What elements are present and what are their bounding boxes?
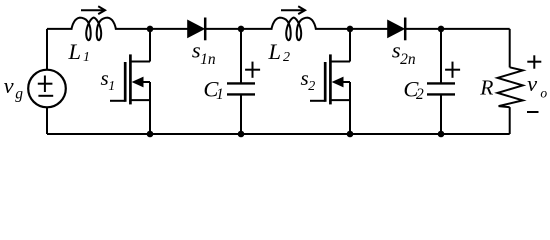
capacitor C1 bottom plate (227, 93, 255, 95)
wire: right branch lower (509, 107, 511, 134)
wire: s2 drain riser (349, 29, 351, 62)
wire: s2 source riser (349, 82, 351, 134)
wire: top rail segment 1 (47, 28, 73, 30)
transistor s2 body arrow (332, 77, 344, 88)
wire: left branch lower (46, 108, 48, 135)
junction node (238, 131, 245, 138)
capacitor C1 top plate (227, 82, 255, 84)
capacitor C2 bottom plate (427, 93, 455, 95)
svg-text:1: 1 (108, 79, 115, 94)
svg-text:2n: 2n (400, 51, 416, 68)
junction node (347, 26, 354, 33)
wire: top rail segment 3 (205, 28, 272, 30)
diode s1n cathode bar (204, 18, 207, 41)
wire: bottom rail (47, 133, 510, 135)
resistor R zigzag (498, 67, 523, 107)
svg-text:L: L (268, 39, 282, 64)
svg-text:2: 2 (416, 86, 424, 103)
C1 polarity plus (245, 69, 260, 71)
wire: s1 drain stub (129, 61, 150, 63)
capacitor C2 top lead (440, 29, 442, 84)
wire: top rail segment 2 (115, 28, 188, 30)
diode s1n triangle (187, 20, 205, 39)
diode s2n cathode bar (404, 18, 407, 41)
wire: s1 source riser (149, 82, 151, 134)
transistor s1 gate bar (124, 62, 127, 102)
wire: s2 gate lead (310, 100, 325, 102)
transistor s1 body arrow (132, 77, 144, 88)
transistor s1 channel bar (129, 54, 132, 104)
output minus (527, 111, 539, 113)
wire: left branch upper (46, 29, 48, 70)
svg-text:v: v (4, 73, 14, 98)
wire: top rail segment 5 (405, 28, 509, 30)
svg-text:R: R (479, 75, 493, 99)
junction node (438, 26, 445, 33)
capacitor C1 top lead (240, 29, 242, 84)
diode s2n triangle (387, 20, 405, 39)
junction node (438, 131, 445, 138)
C2 polarity plus (445, 69, 460, 71)
transistor s2 gate bar (324, 62, 327, 102)
L2 current arrow (281, 9, 303, 11)
source minus sign (38, 95, 53, 97)
wire: s1 source stub (129, 99, 150, 101)
wire: right branch upper (509, 29, 511, 68)
wire: s2 source stub (329, 99, 350, 101)
svg-text:v: v (527, 71, 537, 96)
capacitor C1 bottom lead (240, 94, 242, 134)
source plus sign (38, 83, 53, 85)
output plus (527, 61, 541, 63)
capacitor C2 top plate (427, 82, 455, 84)
svg-text:L: L (68, 39, 82, 64)
svg-text:1: 1 (83, 50, 90, 65)
svg-text:1n: 1n (200, 51, 216, 68)
source vg circle (28, 70, 66, 108)
wire: s1 gate lead (110, 100, 125, 102)
capacitor C2 bottom lead (440, 94, 442, 134)
junction node (147, 26, 154, 33)
L1 current arrow (81, 9, 103, 11)
inductor L2 coil (272, 18, 316, 41)
junction node (147, 131, 154, 138)
svg-text:1: 1 (216, 86, 224, 103)
junction node (238, 26, 245, 33)
wire: s1 drain riser (149, 29, 151, 62)
svg-text:2: 2 (308, 79, 315, 94)
transistor s2 channel bar (329, 54, 332, 104)
wire: s2 drain stub (329, 61, 350, 63)
inductor L1 coil (72, 18, 116, 41)
wire: top rail segment 4 (315, 28, 388, 30)
svg-text:g: g (15, 85, 23, 102)
svg-text:2: 2 (283, 50, 290, 65)
svg-text:o: o (540, 86, 547, 101)
junction node (347, 131, 354, 138)
